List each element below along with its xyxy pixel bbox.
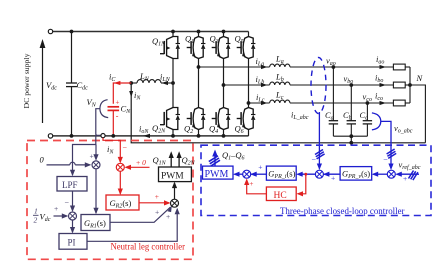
wire vo_abc xyxy=(381,121,391,168)
node Cdc bottom xyxy=(70,134,74,138)
svg-text:HC: HC xyxy=(274,191,287,201)
inductor La xyxy=(270,64,290,67)
wire N to neutral xyxy=(410,85,425,143)
wire PI to N3 xyxy=(87,209,177,241)
svg-text:+: + xyxy=(54,204,58,213)
wire cap rail to neutral xyxy=(350,136,352,143)
input +0 (red) xyxy=(126,166,150,168)
wire LPF to N2 xyxy=(72,191,74,211)
summing junction N2 xyxy=(69,212,77,220)
wire bottom DC- rail xyxy=(52,135,249,137)
wire VN probe into controller xyxy=(73,135,96,175)
capacitor CN (red) xyxy=(108,106,120,108)
svg-text:−: − xyxy=(383,155,388,164)
svg-text:+ 0: + 0 xyxy=(136,158,146,167)
transistor Q2 xyxy=(187,108,206,130)
wire N3 to PWM xyxy=(174,183,176,199)
load resistor phase a xyxy=(393,64,405,70)
probe vo_abc brace xyxy=(372,113,381,130)
wire iN neutral down xyxy=(131,83,425,143)
inductor Lb xyxy=(270,82,290,85)
wire GR1 to N3 xyxy=(110,207,171,222)
measurement terminal on rail xyxy=(101,134,105,138)
svg-text:−: − xyxy=(65,198,70,207)
DC supply negative terminal xyxy=(48,134,52,138)
transistor Q1 xyxy=(187,37,206,59)
svg-text:+: + xyxy=(331,174,335,183)
box PWM (blue) xyxy=(203,166,234,179)
load resistor phase b xyxy=(393,82,405,88)
node vbo xyxy=(349,83,353,87)
current sensor ellipse iL_abc xyxy=(311,58,326,114)
box PI xyxy=(59,234,87,250)
wire phase leg c xyxy=(248,32,250,37)
box HC (red) xyxy=(266,187,296,201)
svg-text:DC power supply: DC power supply xyxy=(22,53,31,108)
box PWM (black) xyxy=(159,167,192,182)
wire phase a xyxy=(199,66,270,68)
transistor Q2N xyxy=(160,108,180,130)
node LN left xyxy=(129,81,133,85)
inductor LN xyxy=(161,82,173,84)
wire capacitor common rail xyxy=(333,135,367,137)
summing junction N3 xyxy=(171,199,179,207)
wire iC red to CN xyxy=(113,83,131,104)
svg-text:2: 2 xyxy=(34,216,38,225)
wire phase b xyxy=(224,84,270,86)
DC supply arrow xyxy=(42,46,44,123)
box GR2 (red) xyxy=(106,195,139,210)
capacitor Cb xyxy=(350,85,352,121)
node vao xyxy=(332,65,336,69)
DC supply positive terminal xyxy=(48,29,52,33)
transistor Q1N xyxy=(160,37,180,59)
svg-text:1: 1 xyxy=(34,207,38,216)
node N xyxy=(408,83,412,87)
svg-text:+: + xyxy=(155,208,159,217)
capacitor Ca xyxy=(332,67,334,121)
svg-text:Neutral leg controller: Neutral leg controller xyxy=(111,243,186,253)
wire S2 to GPRi xyxy=(298,173,316,175)
svg-text:-: - xyxy=(116,112,119,121)
wire S1 to PWM xyxy=(235,173,243,175)
svg-text:+: + xyxy=(249,179,253,188)
summing junction S2 (current) xyxy=(315,170,323,178)
red dashed box xyxy=(27,141,193,260)
node Q2N rail bottom xyxy=(171,134,175,138)
svg-text:LPF: LPF xyxy=(62,180,78,190)
arrow Q2N gate xyxy=(178,154,180,168)
wire neutral leg xyxy=(172,32,174,37)
load resistor phase c xyxy=(393,100,405,106)
slash marks iL xyxy=(315,150,325,159)
node vco xyxy=(366,101,370,105)
svg-text:+: + xyxy=(403,174,407,183)
wire HC to S1 xyxy=(247,180,267,194)
wire iN measurement (red) xyxy=(103,138,120,162)
wire phase leg b xyxy=(223,32,225,37)
box GR1 xyxy=(81,215,110,231)
transistor Q4 xyxy=(212,108,231,130)
box GPR_v xyxy=(340,167,372,181)
box LPF xyxy=(57,177,87,192)
summing junction S3 (voltage) xyxy=(387,170,395,178)
slash marks vo xyxy=(387,149,397,158)
node Q1N rail top xyxy=(171,30,175,34)
wire iL_abc down xyxy=(318,112,320,169)
summing junction N1 xyxy=(92,161,100,169)
node LN tap on leg xyxy=(171,81,175,85)
input vref_abc xyxy=(397,173,419,175)
blue dashed box xyxy=(201,145,431,215)
wire top DC+ rail xyxy=(52,31,249,33)
wire phase c xyxy=(249,102,270,104)
svg-text:−: − xyxy=(123,143,128,152)
summing junction NR (red) xyxy=(116,163,124,171)
node CN bottom on rail xyxy=(111,134,115,138)
node cap rail xyxy=(349,134,353,138)
svg-text:Q1–Q6: Q1–Q6 xyxy=(222,150,245,162)
svg-text:+: + xyxy=(258,163,262,172)
svg-text:Three-phase closed-loop contro: Three-phase closed-loop controller xyxy=(280,207,405,217)
wire S3 to GPRv xyxy=(373,173,387,175)
svg-text:+: + xyxy=(116,99,120,107)
transistor Q5 xyxy=(237,37,256,59)
capacitor Cdc xyxy=(71,32,73,84)
svg-text:PWM: PWM xyxy=(205,169,229,180)
wire HC tap xyxy=(304,173,307,176)
inductor Lc xyxy=(270,100,290,103)
svg-text:−: − xyxy=(312,155,317,164)
wire GPRv to S2 xyxy=(323,173,340,175)
arrow Q1N gate xyxy=(170,154,172,168)
wire GR2 to N3 xyxy=(139,202,169,204)
box GPR_i xyxy=(266,166,296,180)
node Cdc top xyxy=(70,30,74,34)
svg-text:+: + xyxy=(155,192,159,201)
wire N1 to GR1 xyxy=(95,169,97,213)
capacitor Cc xyxy=(366,103,368,121)
wire phase leg a xyxy=(198,32,200,37)
svg-text:+: + xyxy=(166,212,170,221)
transistor Q6 xyxy=(237,108,256,130)
transistor Q3 xyxy=(212,37,231,59)
svg-text:+: + xyxy=(90,151,94,160)
svg-text:PI: PI xyxy=(68,237,76,247)
wire load common xyxy=(405,66,410,68)
svg-text:PWM: PWM xyxy=(161,172,184,182)
arrow Q1-Q6 gates xyxy=(214,152,216,166)
wire N2 to PI xyxy=(72,220,74,232)
wire NR to GR2 xyxy=(119,171,121,193)
summing junction S1 (before PWM) xyxy=(243,170,251,178)
node on neutral line xyxy=(349,141,353,145)
wire GPRi to S1 xyxy=(251,173,267,175)
probe VN (purple) xyxy=(100,100,108,118)
